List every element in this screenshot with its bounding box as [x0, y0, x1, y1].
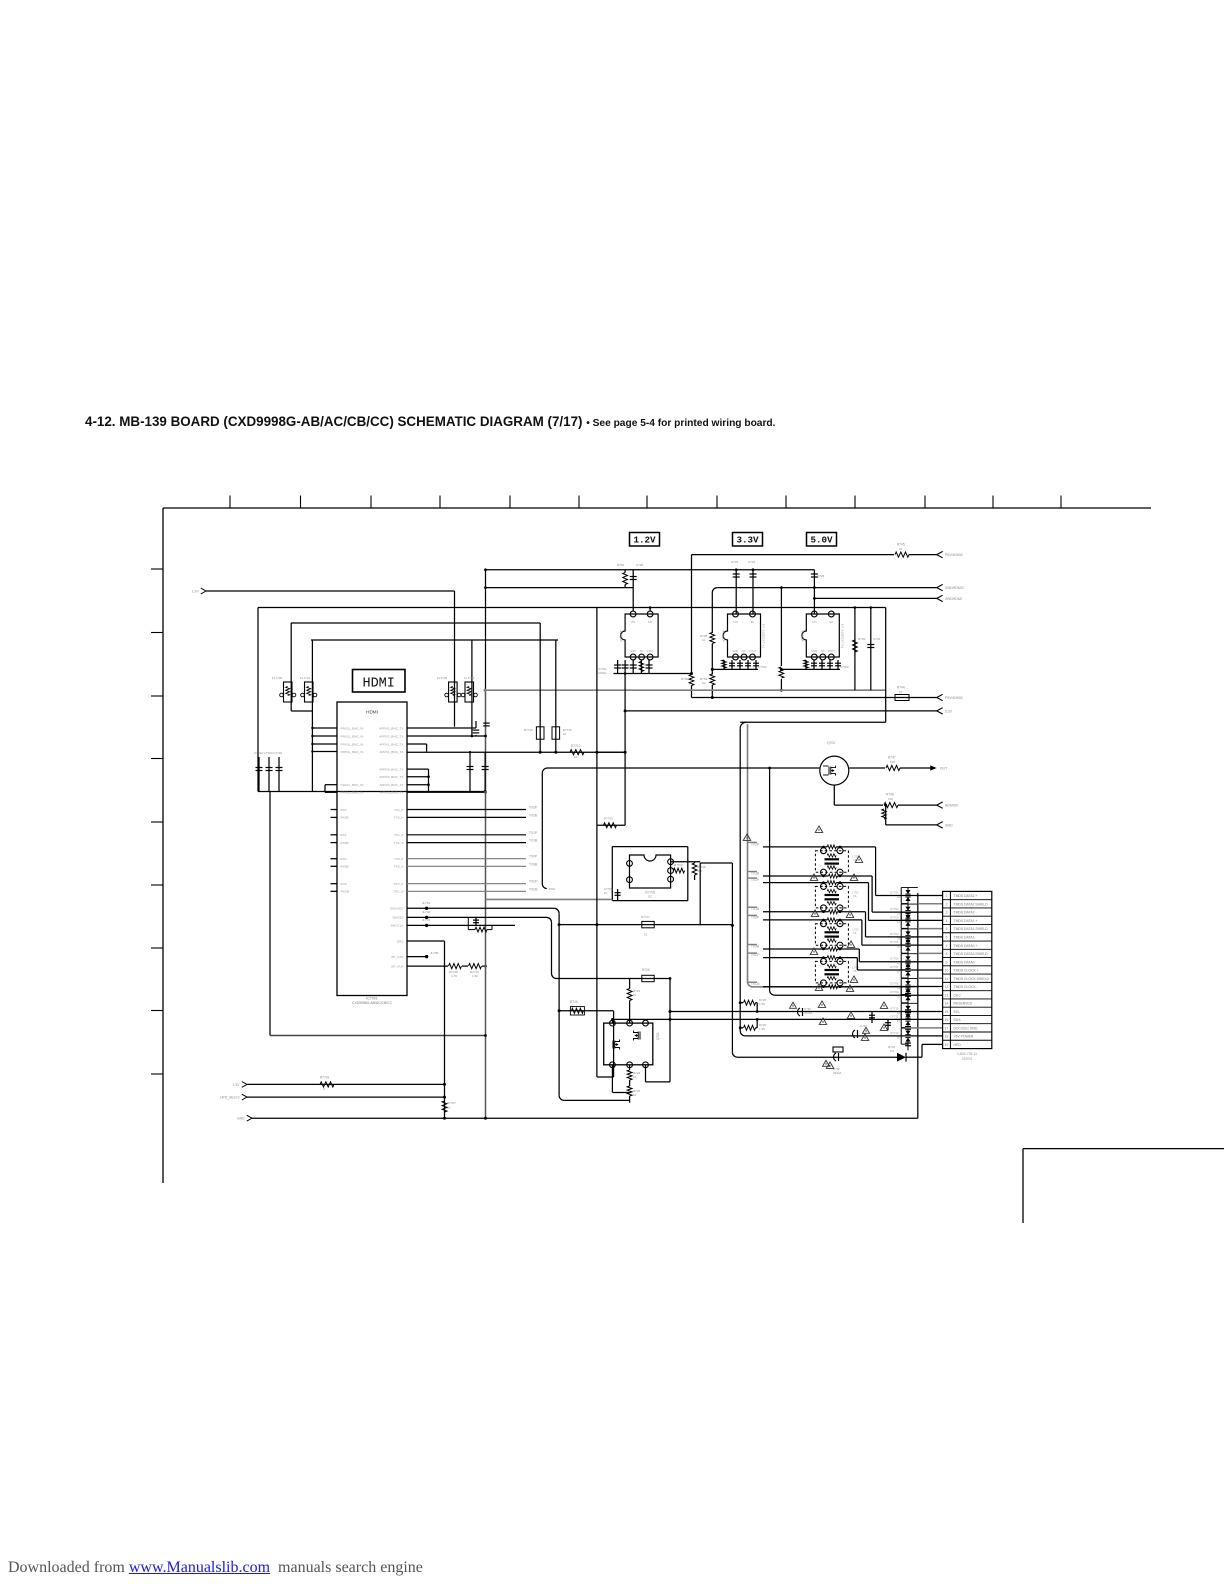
ESD diode pair row 18	[905, 1031, 910, 1035]
ESD diode pair row 7	[905, 940, 910, 944]
wire filter drop to bus	[311, 711, 313, 792]
svg-text:JL701: JL701	[422, 901, 431, 905]
IC IC7703 body	[630, 855, 671, 888]
svg-text:19: 19	[945, 1043, 949, 1047]
svg-text:P5VHDMI2: P5VHDMI2	[945, 553, 963, 557]
junction dots misc	[484, 568, 487, 571]
svg-text:NL: NL	[854, 894, 858, 898]
IC IC7707 body	[621, 614, 659, 657]
svg-text:1.5K: 1.5K	[472, 974, 478, 978]
svg-text:D7712: D7712	[890, 1031, 899, 1035]
resistor R7712 on y752	[570, 750, 584, 755]
decoupling capacitors under IC7704	[723, 660, 725, 669]
svg-text:R7703: R7703	[674, 863, 683, 867]
svg-text:TMDS CLOCK -: TMDS CLOCK -	[954, 985, 978, 989]
capacitor C724 above IC7704	[752, 570, 754, 614]
svg-text:D7701: D7701	[890, 891, 899, 895]
wire SCL long row15	[670, 1011, 943, 1013]
svg-text:11: 11	[945, 977, 949, 981]
regulator loop box2	[700, 862, 732, 864]
wire x740 +5V vertical	[740, 722, 746, 728]
svg-text:HPD: HPD	[954, 1043, 962, 1047]
svg-text:R7712: R7712	[571, 744, 581, 748]
net 3.3V entry arrow bottom	[242, 1082, 247, 1085]
wire x670 vertical	[669, 979, 671, 1082]
resistor R7707 vertical on x444	[442, 1101, 447, 1112]
connector row divider 2	[943, 907, 992, 909]
wire IC7703 to box2	[671, 861, 701, 863]
wire BT pin y956	[407, 956, 427, 958]
wire CEC to connector row13	[775, 994, 943, 996]
TMDS differential output stubs	[407, 809, 526, 811]
svg-text:D7702: D7702	[890, 907, 899, 911]
wire y697 to P5VHDMI3 arrow	[692, 697, 937, 699]
connector row divider 12	[943, 990, 992, 992]
svg-text:10: 10	[447, 1106, 451, 1110]
svg-text:TXC_N: TXC_N	[393, 890, 403, 894]
wire y978 with R706 box	[557, 978, 671, 980]
gray shield stubs T7002	[748, 877, 758, 879]
svg-text:R716: R716	[570, 1000, 578, 1004]
wire bus y640	[311, 639, 558, 641]
wire y805 to arrow	[834, 804, 883, 806]
wire HPD to diode D701	[737, 1056, 897, 1058]
connector row divider 11	[943, 981, 992, 983]
connector row divider 1	[943, 899, 992, 901]
svg-text:BT_CAP: BT_CAP	[391, 955, 403, 959]
svg-text:C731: C731	[873, 637, 881, 641]
resistor R726 vertical	[627, 1086, 632, 1096]
svg-text:TX2B: TX2B	[529, 813, 537, 817]
gray ground bus y690	[485, 689, 886, 691]
wire long TMDS return y752	[407, 751, 625, 753]
svg-text:APRX0_BNC_TX: APRX0_BNC_TX	[379, 783, 403, 787]
connector row divider 14	[943, 1006, 992, 1008]
power rail label 5.0V	[807, 533, 837, 547]
svg-text:RX0B: RX0B	[341, 865, 349, 869]
wire bus y623	[291, 622, 540, 624]
ground bus under IC7704	[712, 668, 758, 670]
svg-text:R7701: R7701	[320, 1076, 330, 1080]
svg-text:J702: J702	[549, 887, 556, 891]
svg-text:TX0B: TX0B	[529, 862, 537, 866]
decoupling capacitors under IC7707	[617, 660, 619, 674]
capacitor C7710	[617, 889, 619, 901]
svg-text:0: 0	[323, 1087, 325, 1091]
capacitor C7703	[268, 757, 270, 792]
svg-text:IC7707: IC7707	[620, 630, 624, 641]
capacitor C7704	[278, 757, 280, 792]
IC IC7705 body	[802, 614, 840, 657]
svg-text:10: 10	[897, 945, 901, 949]
capacitor C721 above IC7707	[623, 573, 628, 585]
svg-text:1.5K: 1.5K	[759, 1002, 765, 1006]
common-mode choke T7004	[815, 961, 848, 983]
power rail label 1.2V	[630, 533, 660, 547]
svg-text:10: 10	[897, 969, 901, 973]
svg-text:R751: R751	[617, 563, 625, 567]
svg-text:C7703: C7703	[840, 665, 849, 669]
svg-text:SDA: SDA	[954, 1018, 962, 1022]
ESD diode pair row 10	[905, 964, 910, 968]
svg-text:18: 18	[945, 1035, 949, 1039]
svg-text:D7707: D7707	[890, 965, 899, 969]
polarized capacitor C740	[798, 1008, 800, 1016]
IC IC7704 body	[723, 614, 761, 657]
svg-text:TMDS DATA0 +: TMDS DATA0 +	[954, 944, 978, 948]
resistor R726 pullup jog	[740, 1027, 743, 1029]
svg-text:GND: GND	[237, 1117, 245, 1121]
wire y599 arrow segment	[814, 597, 936, 599]
svg-text:HDMI: HDMI	[362, 677, 394, 692]
svg-text:IC7001: IC7001	[366, 997, 378, 1001]
svg-text:VOUT: VOUT	[749, 649, 757, 653]
connector row divider 6	[943, 940, 992, 942]
svg-text:NC: NC	[640, 649, 644, 653]
svg-text:10: 10	[633, 1075, 637, 1079]
svg-text:SMCSD: SMCSD	[392, 916, 404, 920]
svg-text:SMCVDD: SMCVDD	[390, 907, 404, 911]
ESD diode pair row 9	[905, 956, 910, 960]
svg-text:EN: EN	[829, 620, 833, 624]
wire x691 vertical from P5V line	[691, 555, 693, 675]
polarized capacitor C741	[834, 1053, 836, 1061]
svg-text:C7702 C7703 C7704: C7702 C7703 C7704	[254, 751, 283, 755]
svg-text:C723: C723	[731, 560, 739, 564]
ESD diode pair row 1	[905, 890, 910, 894]
ESD diode pair row 13	[905, 989, 910, 993]
svg-text:IC7704: IC7704	[722, 630, 726, 641]
svg-text:10: 10	[702, 638, 706, 642]
svg-text:NC: NC	[821, 649, 825, 653]
svg-text:TMDS DATA1 +: TMDS DATA1 +	[954, 919, 978, 923]
HDMI label box	[353, 670, 406, 693]
connector row divider 18	[943, 1039, 992, 1041]
wire x613 stub	[613, 1011, 615, 1077]
wire y752 extension to x625	[597, 751, 625, 753]
ESD capacitors	[907, 989, 909, 1001]
resistor box R7719 on x555	[552, 727, 560, 739]
svg-text:10: 10	[563, 732, 567, 736]
svg-text:OUT: OUT	[940, 767, 948, 771]
resistor R725 pullup jog	[740, 1002, 743, 1004]
wire y1077 stub	[597, 1076, 614, 1078]
svg-text:GND: GND	[945, 824, 953, 828]
common-mode choke T7002	[815, 886, 848, 908]
svg-text:EN: EN	[648, 620, 652, 624]
transistor Q702	[820, 756, 849, 785]
IC7001 left pin wires	[312, 727, 337, 729]
svg-text:PRX2L_BNC_IN: PRX2L_BNC_IN	[341, 734, 364, 738]
svg-text:IC7705: IC7705	[801, 630, 805, 641]
svg-text:APRX2_BNC_TX: APRX2_BNC_TX	[379, 734, 403, 738]
polarized capacitor C742	[853, 1030, 855, 1038]
wire filter jog y711	[291, 710, 312, 712]
power rail label 3.3V	[733, 533, 763, 547]
choke T7001 output stair wires	[875, 847, 877, 896]
wire filter FL7704 down	[471, 682, 473, 736]
svg-text:EN: EN	[751, 620, 755, 624]
svg-text:100: 100	[888, 797, 893, 801]
wire y924 feedback	[559, 924, 732, 926]
ground bus under IC7705	[781, 668, 840, 670]
wire x732 HPD vertical	[731, 925, 733, 1052]
capacitor C7702	[258, 757, 260, 792]
wire SMC y925	[407, 924, 515, 926]
svg-text:PRX1L_BNC_IN: PRX1L_BNC_IN	[341, 783, 364, 787]
svg-text:Q701: Q701	[656, 1032, 660, 1040]
choke T7004 output stair wires	[856, 958, 858, 970]
capacitor C744 on SCL row	[871, 1012, 873, 1024]
svg-text:10: 10	[604, 891, 608, 895]
IC IC7001 CXD9998G body	[337, 702, 407, 996]
svg-text:TXCB: TXCB	[529, 887, 538, 891]
wire HPD to connector row19	[906, 1056, 922, 1058]
svg-text:10: 10	[633, 993, 637, 997]
choke T7001 pin stubs	[823, 846, 825, 849]
choke T7002 output stair wires	[868, 883, 870, 921]
svg-text:3344A: 3344A	[804, 1011, 812, 1015]
svg-text:APRX2_BNC_TX: APRX2_BNC_TX	[379, 726, 403, 730]
wire bus y607 long horizontal	[258, 607, 886, 609]
svg-text:GNDHDMI2: GNDHDMI2	[945, 586, 964, 590]
resistor R7701 on 3.3V wire	[320, 1082, 334, 1087]
ESD diode pair row 12	[905, 981, 910, 985]
wire x712 vertical	[711, 593, 713, 633]
IC Q701 dual-FET body	[604, 1023, 653, 1065]
svg-text:C724: C724	[748, 560, 756, 564]
svg-text:PRX1L_BNC_IN: PRX1L_BNC_IN	[341, 791, 364, 795]
wire IC7001 pin APRX2 y736	[407, 735, 486, 737]
frame tick marks top	[229, 496, 231, 509]
svg-text:TX LX3325TC L-8: TX LX3325TC L-8	[840, 624, 844, 649]
svg-text:JL705: JL705	[430, 951, 439, 955]
ESD diode pair row 16	[905, 1014, 910, 1018]
svg-text:10: 10	[633, 1093, 637, 1097]
wire y825 with resistor	[597, 824, 625, 826]
svg-text:5: 5	[946, 927, 948, 931]
wire HPD_SELF2	[247, 1096, 445, 1098]
gray stub y900	[486, 898, 613, 900]
wire filter FL7703 down	[454, 682, 456, 727]
svg-text:FL7702: FL7702	[272, 676, 283, 680]
svg-text:R7717: R7717	[641, 915, 650, 919]
choke T7002 input wires	[763, 882, 827, 884]
svg-text:1000p: 1000p	[598, 671, 607, 675]
wire x270 vertical to lower bus	[269, 792, 271, 1036]
svg-text:RX2B: RX2B	[341, 816, 349, 820]
wire box x885 vertical	[885, 608, 887, 723]
svg-text:1.5K: 1.5K	[759, 1027, 765, 1031]
svg-text:CEC: CEC	[954, 993, 962, 997]
svg-text:1: 1	[946, 894, 948, 898]
connector row divider 4	[943, 923, 992, 925]
svg-text:13: 13	[945, 993, 949, 997]
choke T7004 pin stubs	[823, 957, 825, 960]
ESD diode pair row 3	[905, 907, 910, 911]
svg-text:1.2V: 1.2V	[192, 589, 200, 593]
wire OUT net y768 left	[547, 767, 770, 769]
svg-text:APRX0_BNC_TX: APRX0_BNC_TX	[379, 775, 403, 779]
resistor R745 on y554	[895, 552, 909, 557]
wire loop bottom y1100	[564, 1099, 630, 1101]
svg-text:TMDS DATA1 SHIELD: TMDS DATA1 SHIELD	[954, 927, 989, 931]
wire box y722	[740, 721, 886, 723]
resistor R744 box on y697	[895, 695, 909, 701]
wire y824 to GND arrow	[886, 824, 937, 826]
svg-text:C725: C725	[817, 574, 825, 578]
svg-text:DDC/CEC GND: DDC/CEC GND	[954, 1026, 978, 1030]
choke T7002 pin stubs	[823, 882, 825, 885]
wire y569 rail	[486, 569, 815, 571]
svg-text:2: 2	[946, 902, 948, 906]
wire ground bus y791	[258, 791, 485, 793]
svg-text:RX1: RX1	[341, 833, 347, 837]
resistor box R7718 on x540	[536, 727, 544, 739]
junction dots on GND	[443, 1117, 446, 1120]
common-mode choke T7003	[815, 924, 848, 946]
svg-text:JL702: JL702	[422, 910, 431, 914]
wire y1010 top with R716 box	[559, 1010, 614, 1012]
gray TMDS shield vertical x747	[747, 724, 749, 982]
svg-text:NC: NC	[742, 649, 746, 653]
wire x559 long vertical	[558, 913, 560, 1095]
svg-text:3: 3	[946, 911, 948, 915]
wire bus y623 drop to filter FL7702	[290, 623, 292, 682]
svg-text:R7720: R7720	[604, 817, 613, 821]
svg-text:D7703: D7703	[890, 915, 899, 919]
wire y587 rail	[486, 587, 634, 589]
gray shield wires to connector	[918, 903, 943, 905]
svg-text:C742: C742	[860, 1024, 867, 1028]
svg-text:100: 100	[890, 760, 895, 764]
capacitor C7708 below y752	[484, 752, 486, 791]
svg-text:VIN: VIN	[733, 620, 737, 624]
svg-text:D7708: D7708	[890, 982, 899, 986]
wire x769 CEC vertical	[769, 768, 771, 990]
svg-text:6: 6	[946, 935, 948, 939]
resistor R7713 small	[475, 927, 487, 932]
connector row divider 3	[943, 915, 992, 917]
wire drop to filter FL7704	[471, 640, 473, 682]
svg-text:4.7K: 4.7K	[451, 974, 457, 978]
wire 3.3V bottom	[247, 1083, 445, 1085]
svg-text:RX0: RX0	[341, 857, 347, 861]
wire y792 to gray vertical	[407, 791, 486, 793]
EMI filter FL7704	[465, 682, 474, 702]
svg-text:NL: NL	[854, 931, 858, 935]
svg-text:CXD9998G-AB/AC/CB/CC: CXD9998G-AB/AC/CB/CC	[352, 1001, 393, 1005]
svg-text:TX0P: TX0P	[529, 855, 537, 859]
wire x485 long vertical lower gray	[485, 690, 487, 1118]
svg-text:HDMI: HDMI	[366, 710, 378, 715]
svg-text:3.3V: 3.3V	[233, 1083, 241, 1087]
svg-text:EEC: EEC	[397, 939, 404, 943]
ESD diode pair row 4	[905, 915, 910, 919]
EMI filter FL7703	[449, 682, 458, 702]
svg-text:D7710: D7710	[890, 1006, 899, 1010]
wire EEC y941	[407, 940, 445, 942]
svg-text:10: 10	[644, 933, 648, 937]
wire bottom left of Q701	[611, 1065, 613, 1093]
svg-text:16: 16	[945, 1018, 949, 1022]
capacitor C723 above IC7704	[735, 570, 737, 614]
svg-text:TX2_P: TX2_P	[394, 808, 403, 812]
svg-text:VOUT: VOUT	[828, 649, 836, 653]
svg-text:TX0_P: TX0_P	[394, 857, 403, 861]
wire x885 down	[885, 805, 887, 825]
wire x540 vertical	[539, 623, 541, 752]
wire to Q702	[770, 767, 820, 769]
capacitor C7706	[485, 721, 487, 728]
svg-text:3.3V: 3.3V	[736, 535, 759, 546]
resistor R7704 vertical	[692, 863, 697, 875]
junction dots x444	[443, 1083, 446, 1086]
svg-text:SMCCLK: SMCCLK	[391, 924, 405, 928]
svg-text:VIN: VIN	[631, 620, 635, 624]
svg-text:12: 12	[945, 985, 949, 989]
svg-text:1.2V: 1.2V	[633, 535, 656, 546]
svg-text:RX1B: RX1B	[341, 841, 349, 845]
schematic border frame top	[163, 507, 1151, 509]
svg-text:TMDS DATA2 -: TMDS DATA2 -	[954, 911, 977, 915]
svg-text:BT_AUX: BT_AUX	[391, 964, 403, 968]
net GND entry arrow	[247, 1115, 252, 1118]
svg-text:FL7704: FL7704	[464, 676, 475, 680]
svg-text:TX2P: TX2P	[529, 806, 537, 810]
connector row divider 16	[943, 1023, 992, 1025]
svg-text:TX1P: TX1P	[529, 831, 537, 835]
wire x625 vertical	[624, 674, 626, 825]
svg-text:D7706: D7706	[890, 957, 899, 961]
svg-text:APRX1_BNC_TX: APRX1_BNC_TX	[379, 750, 403, 754]
svg-text:HPD_SELF2: HPD_SELF2	[220, 1096, 240, 1100]
connector CN701 table	[943, 891, 992, 1048]
svg-text:7: 7	[946, 944, 948, 948]
svg-text:TX1_P: TX1_P	[394, 833, 403, 837]
svg-text:10: 10	[897, 895, 901, 899]
connector row divider 15	[943, 1014, 992, 1016]
common-mode choke T7001	[815, 851, 848, 873]
wire bus x258 vertical	[257, 608, 259, 792]
svg-text:D7711: D7711	[890, 1015, 898, 1019]
frame tick marks left	[151, 568, 163, 570]
svg-text:RESERVED: RESERVED	[954, 1002, 973, 1006]
svg-text:10: 10	[899, 690, 903, 694]
svg-text:17: 17	[945, 1026, 949, 1030]
EMI filter FL7701	[305, 682, 314, 702]
wire x781 vertical to ground bus	[780, 588, 782, 666]
wire IC7707 EN pin stub	[649, 608, 651, 612]
next-zone corner mark bottom right	[1023, 1148, 1224, 1150]
svg-text:SCL: SCL	[954, 1010, 961, 1014]
svg-text:TX1B: TX1B	[529, 839, 537, 843]
resistor R7705 box on y924	[642, 921, 654, 927]
svg-text:PRX2L_BNC_IN: PRX2L_BNC_IN	[341, 726, 364, 730]
wire Q702 bottom	[833, 785, 835, 805]
svg-text:RXCB: RXCB	[341, 890, 350, 894]
wire 1.2V horizontal	[206, 590, 455, 592]
connector row divider 9	[943, 965, 992, 967]
svg-text:10: 10	[897, 994, 901, 998]
svg-text:P5VHDMI3: P5VHDMI3	[945, 696, 963, 700]
svg-text:3344A: 3344A	[833, 1071, 841, 1075]
wire EEC vertical x444	[444, 941, 446, 1118]
wire filter FL7702 down	[290, 682, 292, 711]
svg-text:APRX1_BNC_TX: APRX1_BNC_TX	[379, 742, 403, 746]
svg-text:R754: R754	[858, 637, 866, 641]
ESD protection diode rail	[917, 893, 919, 1118]
